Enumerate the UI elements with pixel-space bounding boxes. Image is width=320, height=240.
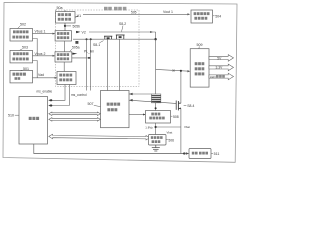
label 510 (8, 113, 19, 117)
wire M3 out arrow PL_lim (72, 53, 77, 55)
svg-text:Vbus 2: Vbus 2 (35, 52, 46, 56)
box 507 controller (101, 91, 130, 128)
wire A controller to resistor node (129, 93, 151, 96)
label 501 (21, 67, 29, 71)
outer border frame (3, 3, 237, 163)
wire 508 to battery node (155, 123, 181, 135)
wire M4 stub to processor (ms line 2) (48, 85, 69, 107)
svg-text:506: 506 (168, 139, 174, 143)
wire S8-4 drain up to feed node (180, 71, 182, 104)
svg-text:3.3V: 3.3V (216, 66, 224, 70)
label S8-1 (93, 41, 104, 48)
svg-text:Vbus 1: Vbus 1 (35, 30, 46, 34)
svg-text:Vout 1: Vout 1 (163, 10, 173, 14)
box M3 charge mgmt unit (55, 52, 72, 62)
svg-text:501: 501 (23, 67, 29, 71)
wire B controller to S8-4 gate (129, 99, 176, 104)
svg-text:1.8Vp: 1.8Vp (145, 126, 153, 130)
wire boost node down to resistor (155, 39, 157, 94)
label 508 (171, 115, 179, 119)
label 504 (213, 14, 221, 18)
svg-text:ms_enable: ms_enable (37, 89, 53, 93)
label 509 (197, 43, 203, 49)
box 503 USB interface unit 2 (10, 50, 33, 63)
transistor S8-1 (104, 36, 112, 39)
box 509 power management unit (190, 49, 209, 87)
dashed box 50a (boost/charge loop) (56, 10, 140, 87)
bus arrow 1 processor-controller (49, 112, 101, 116)
label 511 (211, 152, 219, 156)
wire V2 arrow (76, 30, 86, 34)
svg-text:502: 502 (20, 23, 26, 27)
box M4 charge mgmt unit (57, 72, 76, 85)
svg-text:505b: 505b (73, 25, 81, 29)
svg-text:503: 503 (22, 46, 28, 50)
wire elbow below box 503 (33, 61, 38, 78)
wire S8-4 source down to indicator line (180, 108, 182, 153)
wire processor bottom to indicator line (34, 144, 184, 154)
box 502 USB interface unit 1 (10, 29, 33, 42)
box 506 battery unit (149, 135, 167, 146)
connector M2-M3 (64, 41, 66, 52)
label 503 (20, 46, 28, 51)
small junction blob below M2 (75, 41, 78, 44)
arrow into 511 (186, 152, 189, 154)
wire V2 upper line to corner (89, 31, 156, 39)
svg-text:S8-4: S8-4 (187, 104, 194, 108)
svg-text:Vad: Vad (38, 73, 44, 77)
svg-text:Vbat: Vbat (184, 125, 190, 129)
node at indicator junction (183, 152, 185, 154)
box 510 processor (19, 97, 48, 145)
wire feed to power mgmt 509 (156, 69, 191, 72)
label S8-4 (184, 104, 195, 108)
label 50a (56, 6, 63, 10)
wire elbow below box 502 (33, 39, 38, 56)
svg-text:511: 511 (214, 152, 220, 156)
wire V1 to Vout1 line (75, 14, 81, 18)
label 507 (88, 102, 101, 106)
box 501 DC adapter unit (10, 70, 33, 83)
svg-text:V1: V1 (77, 14, 81, 18)
wire Vout 1 long line (83, 10, 190, 15)
wire M4 stub to processor (ms line 1) (48, 85, 65, 102)
label 506 (166, 139, 174, 143)
label 502 (18, 23, 26, 29)
junction node boost output (154, 38, 156, 40)
transistor S8-2 (116, 35, 125, 39)
svg-text:ms_control: ms_control (71, 93, 87, 97)
wire controller to 508 (129, 114, 146, 116)
fat arrow 3.3V (209, 64, 234, 71)
connector M3-M4 (63, 62, 65, 72)
svg-text:505a: 505a (72, 46, 80, 50)
bus arrow 2 processor-controller (49, 118, 101, 122)
svg-text:509: 509 (197, 43, 203, 47)
gate control verticals to controller (106, 39, 108, 90)
box 511 charge indicator (189, 149, 211, 159)
wire resistor to 508 (155, 103, 157, 111)
wire Vad (33, 73, 58, 79)
control verticals x86.5 x90.7 (86, 39, 88, 90)
fat arrow LED backlight (209, 73, 234, 80)
wire Vbus1 (33, 30, 56, 35)
svg-text:50: 50 (172, 69, 176, 73)
svg-text:510: 510 (8, 113, 14, 117)
label 505a (70, 46, 80, 52)
transistor S8-4 (176, 101, 181, 111)
resistor R (hatched) (151, 94, 160, 103)
svg-text:508: 508 (173, 115, 179, 119)
wire boost rail y39 (73, 38, 156, 40)
svg-text:507: 507 (88, 102, 94, 106)
connector M1-M2 (64, 23, 71, 31)
ground (152, 145, 160, 151)
box 508 gauge unit (146, 111, 171, 124)
box 505 charge mgmt unit M1 (56, 12, 75, 23)
fat arrow 5V (209, 55, 234, 62)
box M2 charge mgmt unit (55, 31, 71, 41)
svg-text:504: 504 (215, 14, 221, 18)
svg-text:Vbat: Vbat (167, 131, 173, 135)
svg-text:50a: 50a (57, 6, 63, 10)
svg-text:LED: LED (210, 75, 217, 79)
svg-text:S8-2: S8-2 (119, 22, 126, 26)
bus arrow processor to battery box 506 (49, 134, 150, 140)
wire M3 lower out to vertical (72, 57, 91, 59)
svg-text:PL_lim: PL_lim (84, 50, 94, 54)
svg-text:V2: V2 (82, 30, 86, 34)
label S8-2 (119, 22, 126, 32)
node dots on rail (86, 38, 88, 40)
wire Vbus2 (33, 52, 56, 57)
svg-text:S8-1: S8-1 (93, 43, 100, 47)
box 504 USB output unit (191, 10, 213, 23)
tick above M1 (64, 10, 66, 12)
title boost-loop text (104, 7, 126, 11)
label LED backlight (210, 75, 225, 79)
